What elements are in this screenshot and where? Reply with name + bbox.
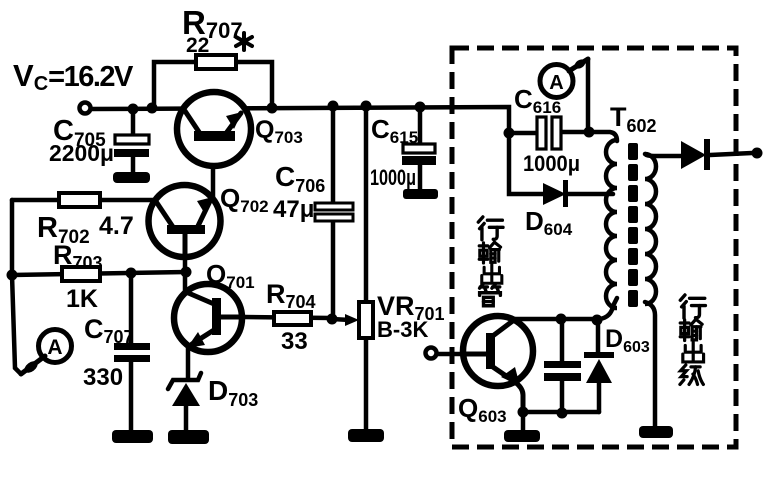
svg-text:1K: 1K xyxy=(66,285,98,313)
svg-text:A: A xyxy=(47,336,62,359)
svg-text:VC=16.2V: VC=16.2V xyxy=(13,58,134,95)
svg-text:33: 33 xyxy=(281,328,308,355)
svg-text:2200μ: 2200μ xyxy=(49,140,114,166)
svg-text:A: A xyxy=(549,72,563,94)
svg-text:B-3K: B-3K xyxy=(377,317,428,342)
svg-text:4.7: 4.7 xyxy=(99,212,134,240)
svg-text:22: 22 xyxy=(186,34,209,57)
svg-text:330: 330 xyxy=(83,364,123,391)
svg-text:1000μ: 1000μ xyxy=(370,165,416,190)
svg-text:47μ: 47μ xyxy=(273,196,314,223)
svg-text:1000μ: 1000μ xyxy=(523,151,580,176)
